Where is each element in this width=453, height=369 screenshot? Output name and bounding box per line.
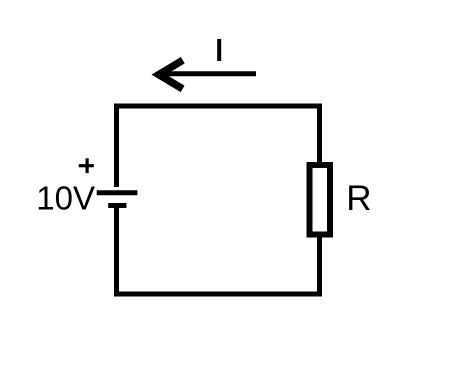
svg-text:R: R: [346, 179, 371, 218]
battery V1 plus plate (long): [97, 190, 138, 195]
wire top: [114, 104, 322, 109]
wire right lower (resistor to bottom corner): [317, 234, 322, 297]
resistor R body: [310, 165, 331, 235]
svg-text:10V: 10V: [36, 180, 95, 217]
current arrow head: [159, 60, 183, 89]
wire left lower (battery to bottom corner): [114, 208, 119, 297]
wire right upper (top corner to resistor): [317, 104, 322, 167]
battery V1 minus plate (short): [108, 203, 126, 208]
plus sign: [79, 158, 94, 173]
wire bottom: [114, 292, 322, 297]
current label I: [217, 39, 221, 61]
current arrow shaft: [160, 71, 256, 76]
wire left upper (top corner to battery): [114, 104, 119, 188]
